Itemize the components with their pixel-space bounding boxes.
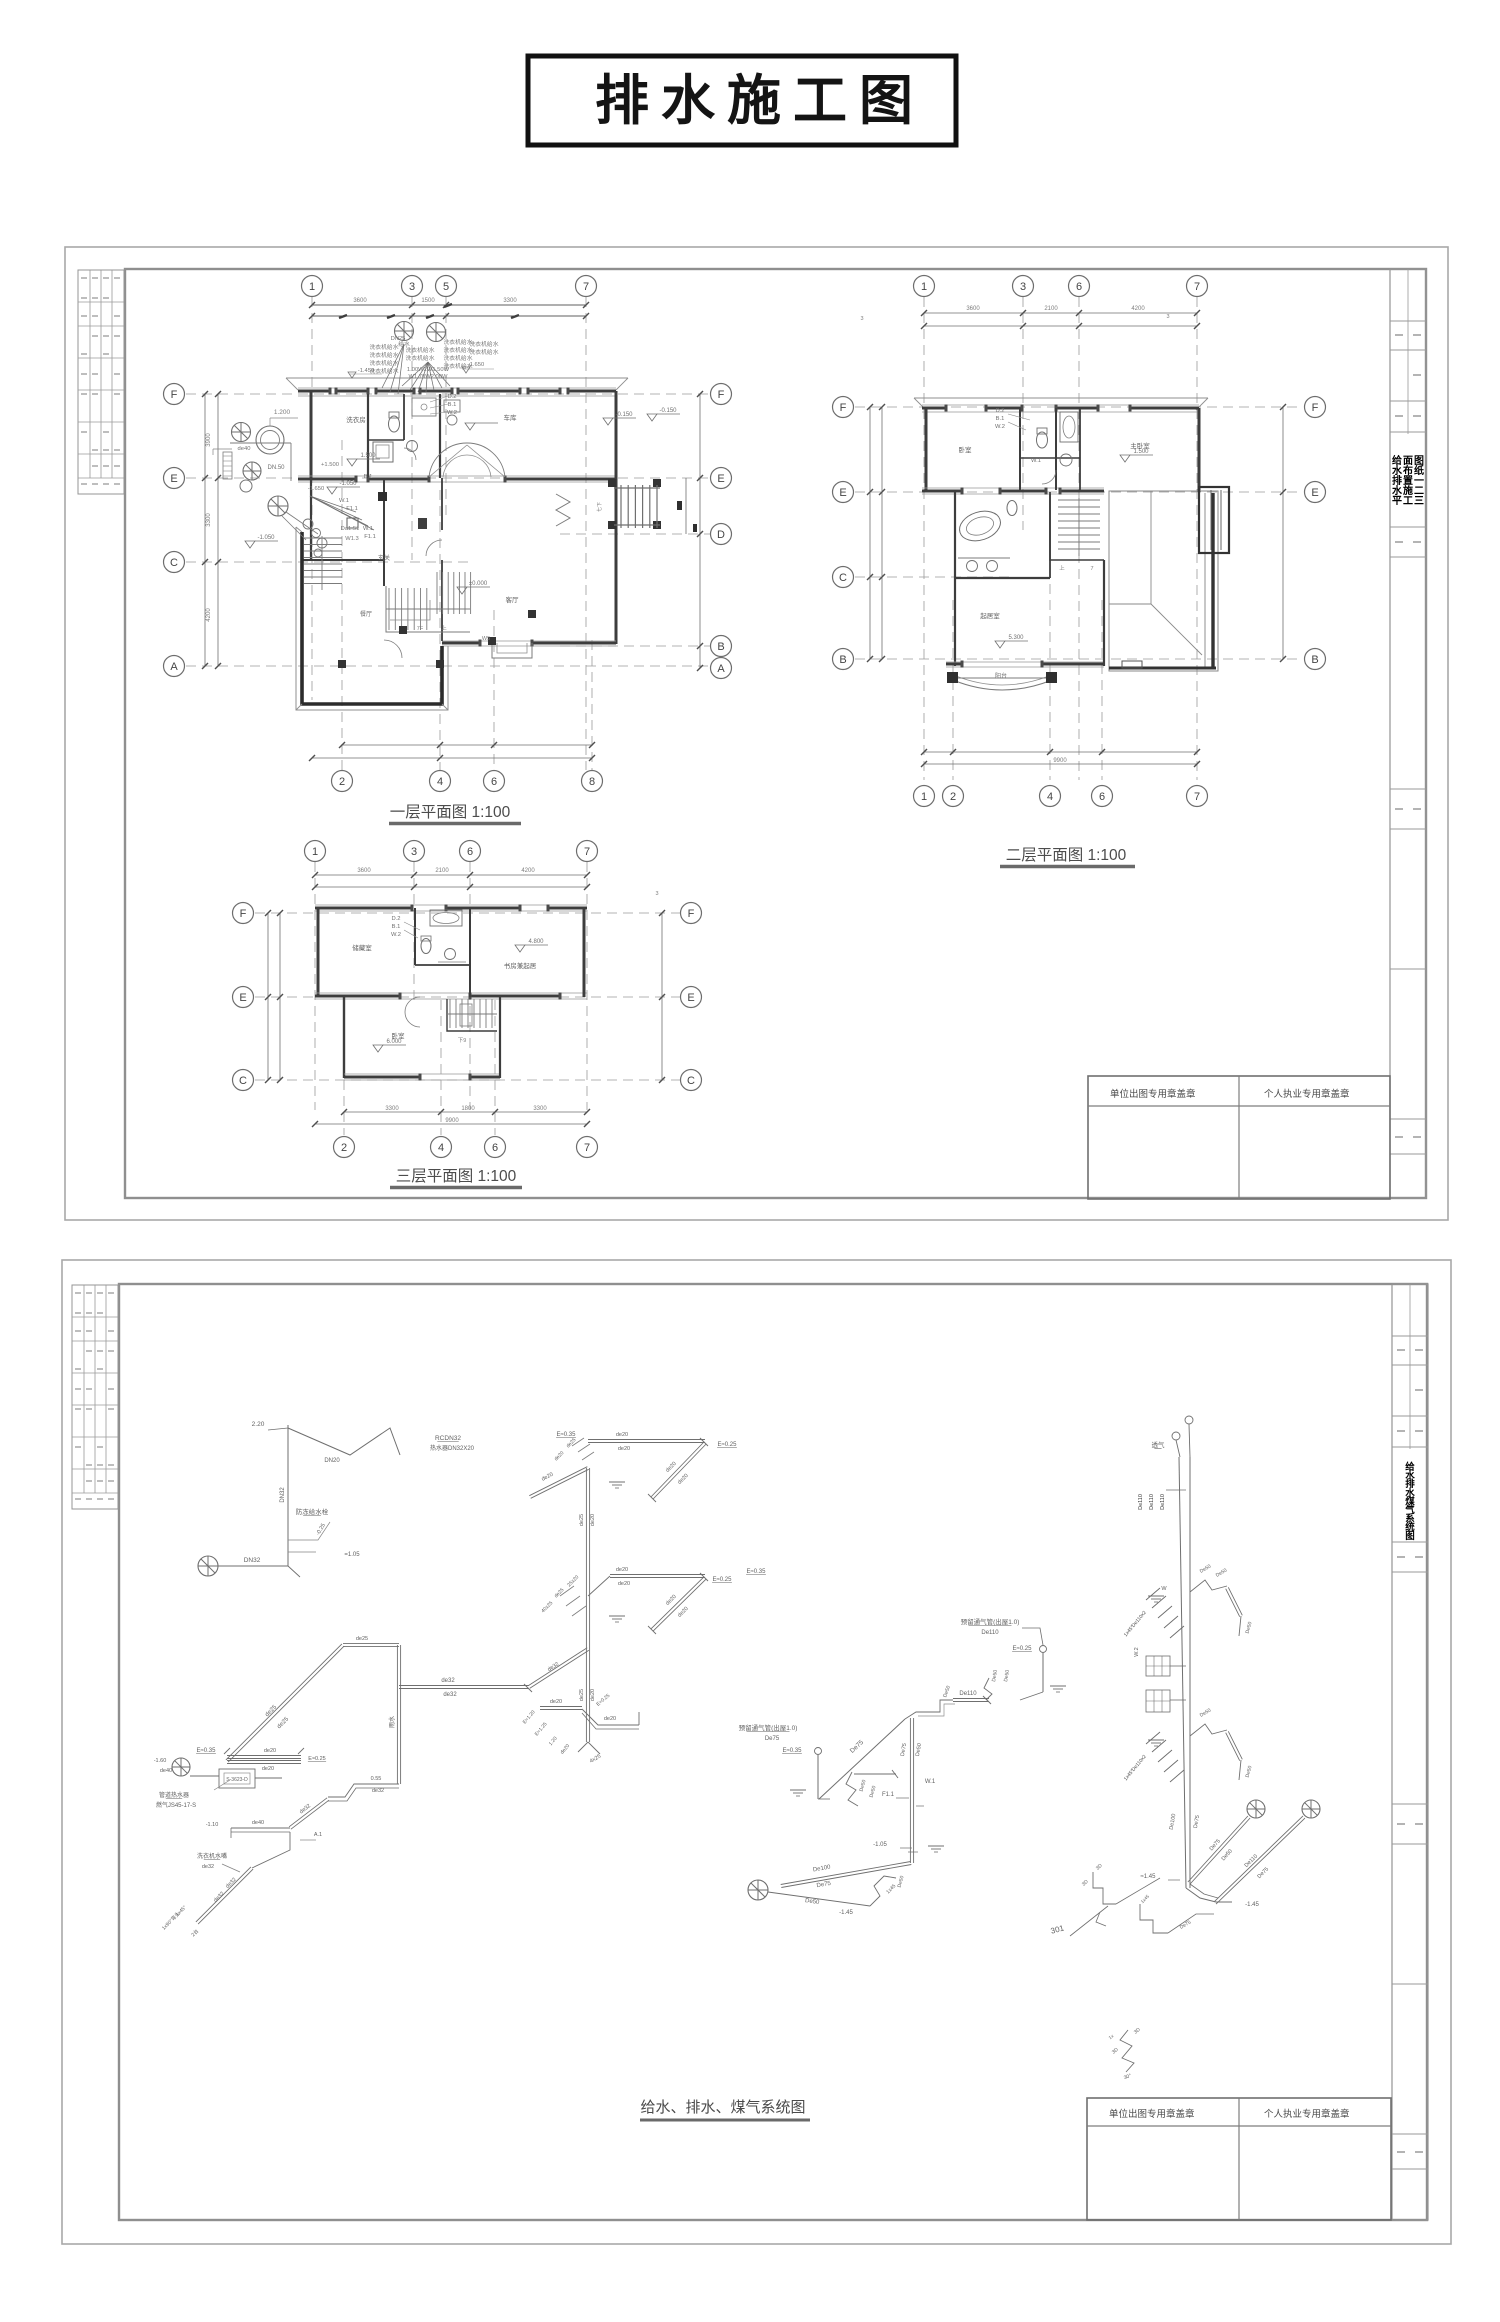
s2 De110 horizontal — [953, 1701, 989, 1703]
svg-text:De75: De75 — [765, 1736, 780, 1742]
svg-text:DN20: DN20 — [324, 1458, 340, 1464]
svg-text:W.2: W.2 — [995, 424, 1005, 430]
svg-text:4200: 4200 — [1131, 306, 1145, 312]
svg-text:洗衣机给水: 洗衣机给水 — [470, 340, 499, 348]
plan3 vertical axes — [314, 862, 316, 1110]
svg-text:防冻给水栓: 防冻给水栓 — [296, 1507, 329, 1516]
plan1 axis line 5 — [445, 297, 447, 520]
svg-text:餐厅: 餐厅 — [360, 610, 372, 618]
svg-text:洗衣机给水: 洗衣机给水 — [444, 346, 473, 354]
s2 branch knot level2 — [1148, 1739, 1164, 1741]
plan2 left dimension chain — [869, 407, 871, 659]
plan3 bottom dimension lines — [344, 1111, 587, 1113]
svg-text:0.55: 0.55 — [371, 1776, 382, 1782]
plan1 small equip circles lower-left — [303, 519, 313, 529]
svg-text:A: A — [717, 663, 725, 675]
plan3 axis bubbles left — [233, 903, 254, 924]
plan3 basin — [445, 949, 456, 960]
plan1 equipment ladder symbol — [223, 452, 232, 479]
plan2 top exterior wall — [922, 407, 946, 410]
plan1 bottom dimension lines — [342, 744, 592, 746]
svg-text:-1.45: -1.45 — [1245, 1902, 1259, 1908]
svg-text:9900: 9900 — [1053, 758, 1067, 764]
s2 foot diag small — [1168, 1914, 1214, 1933]
plan1 axis line 2 — [341, 440, 343, 770]
plan1 right dimension chain — [699, 394, 701, 668]
svg-text:2100: 2100 — [1044, 306, 1058, 312]
plan2 horizontal axes — [855, 406, 1303, 408]
plan2 bath fixtures top — [1060, 412, 1078, 442]
svg-text:-1.050: -1.050 — [339, 481, 357, 487]
plan2 lower-left bathroom walls — [954, 492, 956, 578]
svg-text:B: B — [1311, 654, 1318, 666]
svg-text:3300: 3300 — [533, 1106, 547, 1112]
s2 stack top vent circles — [1172, 1432, 1180, 1440]
plan1 axis line C — [186, 561, 470, 563]
plan1 axis bubble 3 — [402, 276, 423, 297]
svg-text:A: A — [170, 661, 178, 673]
svg-text:F1.1: F1.1 — [364, 534, 376, 540]
svg-text:de40: de40 — [160, 1768, 172, 1774]
plan1 axis line B — [560, 645, 710, 647]
svg-text:A.1: A.1 — [314, 1832, 322, 1838]
svg-text:热水器DN32X20: 热水器DN32X20 — [430, 1444, 475, 1452]
svg-text:平: 平 — [1392, 495, 1402, 507]
s2 mid vent foot — [1020, 1692, 1043, 1700]
plan1 axis bubble 4 — [430, 771, 451, 792]
plan1 interior vertical near stairs — [441, 478, 443, 530]
svg-text:E: E — [717, 473, 724, 485]
svg-text:透气: 透气 — [1152, 1440, 1166, 1449]
svg-text:E≈0.35: E≈0.35 — [557, 1432, 577, 1438]
svg-text:de20: de20 — [264, 1748, 276, 1754]
svg-text:E≈0.25: E≈0.25 — [308, 1756, 325, 1762]
plan2 dark fascia right — [1211, 493, 1214, 668]
s2 below-floor drain squiggle — [1120, 2030, 1134, 2072]
svg-text:D: D — [717, 529, 725, 541]
svg-text:洗衣房: 洗衣房 — [346, 415, 366, 424]
plan1 interior staircase — [388, 588, 390, 630]
svg-text:书房兼起居: 书房兼起居 — [504, 961, 537, 970]
svg-text:F1.1: F1.1 — [882, 1792, 895, 1798]
svg-text:7: 7 — [1194, 791, 1200, 803]
plan2 toilet room door arc — [1042, 470, 1056, 484]
plan1 axis line F — [186, 393, 710, 395]
plan1 stair arrow — [390, 600, 430, 620]
plan1 level markers — [347, 459, 357, 466]
svg-text:排水施工图: 排水施工图 — [595, 71, 925, 131]
plan3 left dimension chain — [267, 913, 269, 1080]
svg-text:de32: de32 — [202, 1864, 214, 1870]
svg-text:图: 图 — [1405, 1531, 1415, 1542]
plan1 roof overhang top — [286, 377, 628, 379]
plan3 axis bubbles bottom — [334, 1137, 355, 1158]
plan1 zigzag opening symbol — [556, 494, 570, 526]
s2 stray fitting mark — [1096, 1912, 1106, 1926]
svg-text:de20: de20 — [616, 1567, 628, 1573]
svg-text:≈1.45: ≈1.45 — [1141, 1874, 1157, 1880]
s2 rain riser vertical — [396, 1645, 398, 1784]
svg-text:主卧室: 主卧室 — [1130, 441, 1150, 450]
s2 de32 diagonal up to riser — [530, 1650, 589, 1688]
plan1 axis line 6 — [493, 610, 495, 770]
svg-text:E≈0.25: E≈0.25 — [718, 1442, 738, 1448]
plan2 dark bottom edge — [1109, 667, 1216, 670]
svg-text:洗衣机给水: 洗衣机给水 — [406, 346, 435, 354]
svg-text:4: 4 — [438, 1142, 444, 1154]
plan1 axis bubble A right — [711, 658, 732, 679]
plan1 kitchen fixtures right of bath — [444, 400, 460, 412]
svg-text:de40: de40 — [238, 446, 251, 452]
plan1 axis bubble F left — [164, 384, 185, 405]
svg-text:1800: 1800 — [461, 1106, 475, 1112]
s2 level2 knot cluster — [566, 1596, 580, 1606]
svg-text:三: 三 — [1414, 495, 1424, 507]
svg-text:3300: 3300 — [206, 513, 212, 527]
svg-text:3: 3 — [655, 891, 658, 897]
s2 left vent riser — [815, 1748, 822, 1755]
plan1 top exterior wall — [298, 390, 330, 393]
svg-text:车库: 车库 — [504, 413, 518, 422]
plan3 horizontal axes — [255, 912, 680, 914]
plan1 shower tray — [412, 398, 436, 416]
s2 top zigzag to heater — [288, 1428, 400, 1455]
s2 branch knot level3 — [1148, 1595, 1164, 1597]
plan1 door arc bath — [404, 448, 416, 460]
svg-text:C: C — [170, 557, 178, 569]
s2 central vertical double — [909, 1718, 911, 1863]
plan2 axis bubbles bottom — [914, 786, 935, 807]
svg-text:W.2: W.2 — [1134, 1647, 1140, 1656]
plan2 level markers — [1120, 455, 1130, 462]
s2 mid vent circle — [1040, 1646, 1047, 1653]
svg-text:W5: W5 — [482, 636, 490, 642]
plan2 bottom dimension lines — [924, 751, 1197, 753]
plan1 axis bubble 7 — [576, 276, 597, 297]
plan1 bottom wall of right wing — [442, 642, 480, 645]
svg-text:DN25: DN25 — [391, 336, 406, 342]
s2 left cluster cold water inlet valve — [198, 1556, 218, 1576]
svg-text:de20: de20 — [616, 1432, 628, 1438]
svg-text:DN32: DN32 — [280, 1487, 286, 1503]
sheet1 inner frame — [125, 269, 1426, 1198]
svg-text:Da1.51: Da1.51 — [341, 526, 360, 532]
plan1 column blocks — [338, 660, 346, 668]
plan1 washbasin — [373, 442, 393, 462]
svg-text:W.1: W.1 — [925, 1779, 936, 1785]
plan3 lower room walls — [343, 997, 345, 1078]
svg-text:de32: de32 — [443, 1692, 457, 1698]
svg-text:单位出图专用章盖章: 单位出图专用章盖章 — [1110, 1088, 1196, 1100]
svg-text:管道热水器: 管道热水器 — [159, 1791, 189, 1799]
plan2 bathroom partitions — [1019, 408, 1021, 490]
plan1 terrace thick parapet — [302, 532, 442, 704]
svg-text:3: 3 — [1166, 314, 1169, 320]
svg-text:7: 7 — [584, 846, 590, 858]
svg-text:De110: De110 — [1138, 1494, 1144, 1510]
svg-text:+1.500: +1.500 — [321, 462, 339, 468]
svg-text:3600: 3600 — [353, 298, 367, 304]
plan2 basin pair — [967, 561, 978, 572]
svg-text:8: 8 — [589, 776, 595, 788]
svg-text:F: F — [718, 389, 725, 401]
svg-text:De110: De110 — [1160, 1494, 1166, 1510]
s2 stack label block2 — [1146, 1690, 1170, 1712]
s2 main isometric diagonal de25 — [228, 1646, 344, 1762]
svg-text:-1.650: -1.650 — [308, 486, 324, 492]
svg-text:W.1: W.1 — [1031, 458, 1041, 464]
s2 level1 junction knot — [578, 1444, 590, 1452]
plan1 axis line A — [186, 665, 710, 667]
svg-text:洗衣机水嘴: 洗衣机水嘴 — [197, 1852, 227, 1860]
svg-text:1: 1 — [309, 281, 315, 293]
svg-text:DN32: DN32 — [244, 1557, 261, 1564]
plan2 wc fixture — [1007, 501, 1017, 516]
plan1 exterior stair bottom-left — [304, 537, 342, 539]
svg-text:B.1: B.1 — [364, 474, 373, 480]
plan3 bathtub — [430, 910, 462, 926]
svg-text:2: 2 — [341, 1142, 347, 1154]
svg-text:玄关: 玄关 — [378, 554, 390, 562]
s2 diagonal to de40 line — [289, 1798, 327, 1827]
s2 foot zig fittings — [1093, 1872, 1116, 1904]
plan1 door arc main entry — [429, 443, 467, 477]
plan2 stair block — [1050, 494, 1104, 560]
s2 De50 vertical zig — [984, 1678, 992, 1700]
plan3 wall on axis E — [315, 995, 400, 998]
svg-text:洗衣机给水: 洗衣机给水 — [370, 343, 399, 351]
plan3 wc — [421, 939, 431, 954]
svg-text:二层平面图 1:100: 二层平面图 1:100 — [1006, 847, 1127, 864]
s2 stack foot bend — [1186, 1888, 1232, 1902]
svg-text:de20: de20 — [604, 1716, 616, 1722]
s2 foot zig 2 — [1140, 1904, 1168, 1933]
plan2 top dimension lines — [924, 312, 1197, 314]
svg-text:E≈0.35: E≈0.35 — [197, 1748, 217, 1754]
svg-text:七下: 七下 — [596, 502, 603, 512]
s2 level1 branch horizontals — [588, 1442, 705, 1444]
main title box 排水施工图 — [528, 56, 956, 145]
svg-text:阳台: 阳台 — [995, 672, 1007, 680]
plan1 axis bubble 5 — [436, 276, 457, 297]
s2 de32 connector horizontal — [399, 1688, 529, 1690]
svg-text:1: 1 — [921, 791, 927, 803]
svg-text:W.2: W.2 — [391, 932, 401, 938]
plan1 axis bubble 1 — [302, 276, 323, 297]
plan1 axis line 1 — [311, 297, 313, 700]
svg-text:4: 4 — [437, 776, 443, 788]
svg-text:洗衣机给水: 洗衣机给水 — [444, 354, 473, 362]
svg-text:DN.50: DN.50 — [267, 465, 285, 471]
s2 right tall stack — [1179, 1457, 1186, 1888]
svg-text:B: B — [839, 654, 846, 666]
svg-text:W.2: W.2 — [447, 410, 457, 416]
svg-text:5: 5 — [443, 281, 449, 293]
plan1 valve symbol top-left — [232, 423, 251, 442]
plan1 bay window detail — [492, 643, 532, 658]
svg-text:-1.050: -1.050 — [257, 535, 275, 541]
s2 level1 diag down-left — [529, 1467, 587, 1496]
sheet2 stamp table — [1087, 2098, 1391, 2220]
sheet2 signature table — [72, 1285, 118, 1509]
s2 level2 branch — [610, 1577, 705, 1579]
svg-text:F: F — [1312, 402, 1319, 414]
plan2 balcony roof right — [1109, 491, 1218, 671]
svg-text:6: 6 — [1099, 791, 1105, 803]
plan3 door arcs — [405, 997, 420, 1012]
svg-text:卧室: 卧室 — [959, 445, 973, 454]
s2 top horizontal to riser junction — [343, 1646, 399, 1648]
svg-text:3: 3 — [409, 281, 415, 293]
svg-text:卧室: 卧室 — [392, 1031, 406, 1040]
svg-text:-1.60: -1.60 — [154, 1758, 167, 1764]
svg-text:3: 3 — [1020, 281, 1026, 293]
sheet2 outer border — [62, 1260, 1451, 2244]
svg-text:洗衣机给水: 洗衣机给水 — [406, 354, 435, 362]
svg-text:一层平面图 1:100: 一层平面图 1:100 — [390, 804, 511, 821]
plan1 axis bubble F right — [711, 384, 732, 405]
svg-text:储藏室: 储藏室 — [352, 943, 372, 952]
svg-text:-0.150: -0.150 — [615, 412, 633, 418]
svg-text:洗衣机给水: 洗衣机给水 — [444, 338, 473, 346]
s2 riser DN32 vertical — [287, 1425, 289, 1566]
svg-text:预留通气管(出屋1.0): 预留通气管(出屋1.0) — [961, 1617, 1020, 1626]
svg-text:F: F — [840, 402, 847, 414]
plan1 axis line D — [560, 533, 710, 535]
svg-text:工: 工 — [1403, 496, 1413, 507]
s2 horizontal link to zig — [854, 1773, 896, 1775]
plan1 top dimension lines — [312, 304, 586, 306]
svg-text:2.20: 2.20 — [252, 1421, 265, 1428]
svg-text:7: 7 — [584, 1142, 590, 1154]
plan3 bathroom partitions — [414, 908, 416, 965]
plan2 chimney shaft top right — [1199, 487, 1229, 553]
svg-text:三层平面图 1:100: 三层平面图 1:100 — [396, 1168, 517, 1185]
plan1 fixture circles top — [395, 322, 414, 341]
plan1 axis bubble 8 — [582, 771, 603, 792]
svg-text:洗衣机给水: 洗衣机给水 — [370, 351, 399, 359]
svg-text:E≈0.25: E≈0.25 — [713, 1577, 733, 1583]
svg-text:B.1: B.1 — [448, 402, 457, 408]
svg-text:2: 2 — [950, 791, 956, 803]
svg-text:3900: 3900 — [206, 433, 212, 447]
svg-text:客厅: 客厅 — [506, 595, 520, 604]
svg-text:下9: 下9 — [458, 1037, 467, 1044]
svg-text:4: 4 — [1047, 791, 1053, 803]
plan1 axis line 3 — [411, 297, 413, 560]
svg-text:de20: de20 — [618, 1581, 630, 1587]
s2 outfall diagonal 1 — [1188, 1816, 1248, 1882]
plan2 lower room walls — [954, 578, 956, 666]
s2 level2 diag right-down — [651, 1577, 704, 1629]
svg-text:E≈0.35: E≈0.35 — [783, 1748, 803, 1754]
plan1 door arc lower room — [426, 540, 442, 556]
s2 water softener box — [172, 1758, 190, 1776]
plan1 axis bubble E right — [711, 468, 732, 489]
svg-text:E: E — [1311, 487, 1318, 499]
svg-text:B: B — [717, 641, 724, 653]
plan1 axis bubble 6 — [484, 771, 505, 792]
svg-text:C: C — [687, 1075, 695, 1087]
svg-text:给水、排水、煤气系统图: 给水、排水、煤气系统图 — [640, 2099, 805, 2116]
svg-text:3600: 3600 — [966, 306, 980, 312]
plan2 axis bubbles top — [914, 276, 935, 297]
svg-text:E: E — [170, 473, 177, 485]
svg-text:7F: 7F — [417, 626, 424, 632]
svg-text:1.500: 1.500 — [360, 453, 376, 459]
svg-text:9900: 9900 — [445, 1118, 459, 1124]
svg-text:2: 2 — [339, 776, 345, 788]
plan1 axis line 4 — [439, 490, 441, 770]
svg-text:de25: de25 — [356, 1636, 368, 1642]
svg-text:1: 1 — [921, 281, 927, 293]
svg-text:C: C — [239, 1075, 247, 1087]
svg-text:D.2: D.2 — [447, 394, 456, 400]
svg-text:上: 上 — [441, 624, 447, 632]
svg-text:1.00W2W1.50W: 1.00W2W1.50W — [407, 367, 450, 373]
s2 outfall zig link — [870, 1876, 896, 1906]
plan3 left exterior wall — [317, 908, 320, 997]
sheet1 title strip — [1390, 269, 1426, 1198]
svg-text:5.300: 5.300 — [1008, 635, 1024, 641]
svg-text:7: 7 — [1090, 566, 1093, 572]
svg-text:de20: de20 — [262, 1766, 274, 1772]
plan1 partition walls of bathroom — [367, 394, 369, 478]
svg-text:4.800: 4.800 — [528, 939, 544, 945]
plan1 axis bubble 2 — [332, 771, 353, 792]
s2 zig De50 small — [846, 1772, 858, 1806]
s2 riser bottom flare — [588, 1742, 600, 1754]
s2 pipe inlet horizontal DN32 — [218, 1565, 288, 1567]
sheet1 signature table — [78, 270, 124, 494]
plan3 right exterior wall — [583, 908, 586, 997]
svg-text:de20: de20 — [550, 1699, 562, 1705]
svg-text:=1.05: =1.05 — [344, 1552, 360, 1558]
svg-text:3: 3 — [411, 846, 417, 858]
s2 right zig branch lower — [1190, 1724, 1227, 1736]
svg-text:6: 6 — [492, 1142, 498, 1154]
s2 washing sink branch E0.35 — [227, 1758, 301, 1760]
plan2 bathtub ellipse — [956, 506, 1005, 546]
svg-text:de20: de20 — [590, 1689, 596, 1701]
svg-text:W1.3: W1.3 — [345, 536, 359, 542]
svg-text:-0.150: -0.150 — [659, 408, 677, 414]
svg-text:3600: 3600 — [357, 868, 371, 874]
svg-text:1: 1 — [312, 846, 318, 858]
plan1 axis bubble A left — [164, 656, 185, 677]
svg-text:W: W — [1161, 1586, 1167, 1592]
svg-text:RCDN32: RCDN32 — [435, 1435, 461, 1442]
svg-text:7: 7 — [583, 281, 589, 293]
svg-text:起居室: 起居室 — [980, 611, 1000, 620]
svg-text:雨水: 雨水 — [388, 1716, 396, 1728]
s2 right zig branch upper — [1190, 1580, 1227, 1592]
plan3 right dimension chain — [661, 913, 663, 1080]
s2 bottom washer branch — [196, 1867, 251, 1922]
svg-text:De110: De110 — [959, 1691, 977, 1697]
plan3 top dimension lines — [315, 874, 587, 876]
plan1 axis line 7 — [585, 297, 587, 770]
plan1 axis bubble E left — [164, 468, 185, 489]
svg-text:de20: de20 — [590, 1514, 596, 1526]
plan3 axis bubbles top — [305, 841, 326, 862]
plan1 axis bubble D right — [711, 524, 732, 545]
svg-text:-1.45: -1.45 — [839, 1910, 853, 1916]
plan3 stair block — [447, 999, 497, 1031]
svg-text:上: 上 — [1059, 564, 1065, 572]
svg-text:De110: De110 — [1149, 1494, 1155, 1510]
svg-text:C: C — [839, 572, 847, 584]
